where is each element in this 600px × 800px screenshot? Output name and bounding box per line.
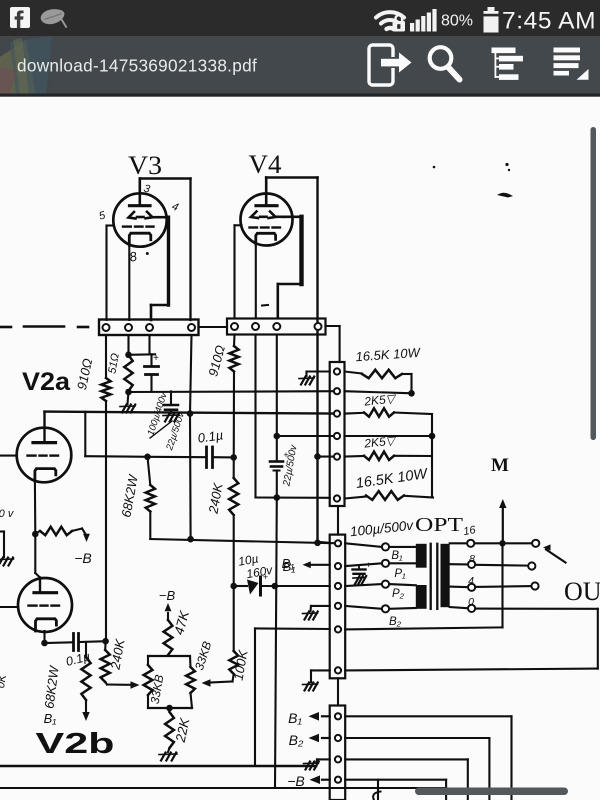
- wire 910ohm down to V2b grid node: [105, 401, 107, 641]
- ground at TS-A pin6: [311, 669, 330, 671]
- ground below 22K: [168, 748, 170, 752]
- meter arrow: [502, 509, 504, 543]
- vertical scrollbar: [591, 127, 597, 440]
- OPT primary winding: [416, 544, 427, 568]
- svg-text:V3: V3: [128, 151, 162, 180]
- terminal strip TS-mid (vertical): [330, 362, 345, 506]
- resistor 100K: [229, 651, 238, 674]
- svg-text:−B: −B: [159, 588, 176, 603]
- svg-text:B₁: B₁: [288, 710, 302, 726]
- arrow 100K into divider: [233, 674, 234, 682]
- OPT core: [430, 544, 432, 609]
- terminal strip TS1: [99, 320, 199, 336]
- wire V4 cathode drop: [255, 244, 257, 318]
- wifi icon with lock: [376, 12, 404, 29]
- wire V4 left pin drop: [233, 225, 235, 318]
- capacitor 22u/500V with ground: [170, 391, 172, 404]
- wire TS-mid pin4 row: [277, 435, 337, 437]
- junction bus for load resistors: [431, 414, 433, 498]
- capacitor 100u/500V (next to strip): [358, 566, 360, 569]
- resistor 240K: [229, 478, 238, 515]
- arrow to B1: [85, 700, 87, 711]
- svg-text:−B: −B: [74, 550, 92, 566]
- svg-text:P₂: P₂: [392, 588, 405, 600]
- ground at TS-B pin3: [317, 758, 330, 760]
- wire V4 grid drop: [299, 217, 303, 284]
- svg-text:+: +: [153, 353, 159, 364]
- wire V3 cathode drop: [128, 245, 130, 320]
- svg-text:P₁: P₁: [394, 568, 406, 580]
- wire tap0 to right edge down: [475, 608, 597, 610]
- svg-text:B₂: B₂: [289, 732, 304, 748]
- small curve mark bottom: [373, 792, 380, 800]
- wire TS-A pin6 long row: [345, 669, 598, 671]
- long wire row to TS-mid pin2: [129, 390, 338, 393]
- ink specks: [505, 163, 508, 166]
- stray mark: [262, 304, 268, 307]
- terminal strip TS2: [227, 319, 326, 335]
- search icon: [430, 47, 460, 79]
- svg-text:80%: 80%: [441, 13, 473, 30]
- wire 68K bottom row (sloped, to lower strip pin1): [149, 512, 151, 540]
- wire long drop through 0.1u row and 240K: [233, 372, 235, 479]
- terminal strip TS-A (vertical): [330, 535, 346, 679]
- wire TS-A pin5 row: [345, 627, 502, 629]
- view mode icon: [554, 48, 589, 80]
- ground at 51ohm bottom: [128, 392, 129, 404]
- divider loop 33KB || 33KB: [148, 655, 190, 657]
- resistor 16.5K 10W (upper): [345, 372, 363, 374]
- wire TS-mid pin4 to junction: [345, 435, 433, 437]
- svg-text:V2b: V2b: [36, 728, 115, 760]
- wire V3 pin5 drop: [105, 226, 107, 321]
- svg-text:OPT: OPT: [415, 514, 463, 536]
- resistor 51ohm: [127, 335, 129, 355]
- signal bars: [410, 9, 437, 32]
- wire V2b grid stub: [0, 606, 18, 608]
- tube V2b: [18, 578, 72, 633]
- secondary tap 16: [450, 542, 467, 544]
- resistor 2K5 (lower): [345, 455, 365, 458]
- resistor 2K5 (upper): [345, 412, 365, 415]
- tube V4: [235, 178, 293, 246]
- wire V4 plate top: [266, 176, 317, 179]
- horizontal scrollbar: [415, 788, 568, 796]
- bottom -B line: [0, 787, 446, 789]
- svg-text:M: M: [491, 455, 509, 476]
- wire M node down: [501, 543, 503, 627]
- wire TS2 right link: [326, 325, 340, 327]
- bottom ground bus: [0, 765, 316, 768]
- arrow up to -B: [165, 603, 172, 611]
- tube V2a: [17, 412, 72, 483]
- ground at TS-A pin4: [311, 605, 330, 607]
- B1 arrow at TS-B pin1: [322, 715, 330, 717]
- wire 51ohm top to cap: [129, 353, 156, 356]
- B2 arrow at TS-B pin2: [322, 737, 330, 739]
- svg-text:7:45 AM: 7:45 AM: [502, 8, 596, 35]
- resistor 68K2W (V2a): [148, 457, 151, 485]
- -B arrow at TS-B pin4: [322, 779, 330, 781]
- svg-text:B₂: B₂: [389, 616, 402, 628]
- OPT secondary winding: [441, 544, 450, 607]
- battery icon: [484, 7, 499, 33]
- capacitor 0.1u (V2a coupling): [148, 456, 207, 459]
- outline/toc icon: [492, 48, 524, 80]
- terminal strip TS-B (vertical, bottom): [330, 706, 346, 800]
- wire V3 grid drop: [167, 217, 170, 305]
- resistor 16.5K 10W (lower): [345, 497, 367, 499]
- wire left bus to divider (y627): [255, 627, 330, 630]
- svg-text:+: +: [263, 572, 268, 582]
- app bar bottom edge: [0, 94, 600, 97]
- V4 cathode drop to TS-mid pin6 row: [254, 335, 256, 498]
- V2a cathode drop: [34, 481, 36, 534]
- svg-text:OUT: OUT: [564, 577, 600, 606]
- wire V2a grid stub from left edge: [0, 455, 17, 457]
- stub with ground at left edge: [0, 530, 4, 532]
- export/share icon: [369, 45, 412, 85]
- svg-text:V2a: V2a: [22, 368, 71, 396]
- wires terminals to primary winding: [389, 546, 415, 548]
- facebook notification icon: [10, 7, 30, 28]
- wire V3 plate top: [140, 177, 191, 180]
- resistor 22K: [168, 708, 170, 712]
- app bar background: [0, 36, 600, 95]
- resistor 47K: [164, 620, 173, 655]
- svg-text:V4: V4: [249, 150, 282, 179]
- resistor 910ohm (left): [105, 335, 107, 378]
- wire TS1-TS2 link: [199, 326, 228, 328]
- wire V2a cathode to V2b plate: [34, 534, 36, 573]
- OPT primary terminals: [345, 543, 381, 547]
- B1 feed arrow at TS-A pin2: [310, 564, 330, 566]
- wire V3 plate drop: [189, 179, 191, 321]
- svg-text:B₁: B₁: [44, 711, 57, 726]
- V4 grid line drop with 22u/500V cap: [276, 335, 278, 462]
- resistor 240K (V2b): [101, 650, 110, 682]
- arrow 240K into divider: [105, 682, 107, 685]
- output switch: [532, 540, 539, 547]
- wire branch down to grid-cap row: [84, 412, 86, 456]
- capacitor 0.1u (V2b): [45, 641, 72, 644]
- tube V3: [98, 179, 180, 265]
- svg-text:B₁: B₁: [282, 556, 295, 571]
- status bar: [0, 0, 600, 36]
- wire pin6 long drop (through B+ node to bottom): [275, 498, 277, 789]
- wire -B rail left: [85, 526, 108, 528]
- wire V4 plate drop (long, through connector to lower strip): [316, 178, 318, 542]
- svg-text:B₁: B₁: [391, 550, 403, 562]
- resistor 68K2W (V2b): [85, 642, 87, 657]
- ground hook at TS-mid pin1: [307, 370, 330, 372]
- wire V2a plate row (long B+ row to TS-mid pin3): [45, 412, 338, 414]
- capacitor 100u/400V: [148, 335, 150, 354]
- wire TS-mid pin2 to junction: [345, 391, 412, 393]
- resistor 910ohm (right): [233, 335, 236, 347]
- wire TS1 pin4 drop: [190, 335, 192, 414]
- resistor to -B (V2a cathode): [35, 531, 40, 534]
- wire TS-mid pin5 row: [318, 456, 338, 458]
- wire 10u to TS-A pin3 (B+ row): [261, 585, 330, 587]
- dashed section boundary line: [0, 326, 11, 329]
- wire long row to TS-A pin1: [318, 542, 330, 543]
- svg-text:−B: −B: [287, 773, 305, 789]
- leaf notification icon: [41, 9, 65, 24]
- strip lead down: [337, 506, 339, 535]
- svg-text:download-1475369021338.pdf: download-1475369021338.pdf: [17, 56, 257, 76]
- wallpaper fan peeking at left of app bar: [0, 36, 56, 95]
- TS-B right wires nested drops: [345, 715, 511, 717]
- svg-text:0 v: 0 v: [0, 508, 15, 520]
- wire V2b cathode down: [43, 631, 45, 643]
